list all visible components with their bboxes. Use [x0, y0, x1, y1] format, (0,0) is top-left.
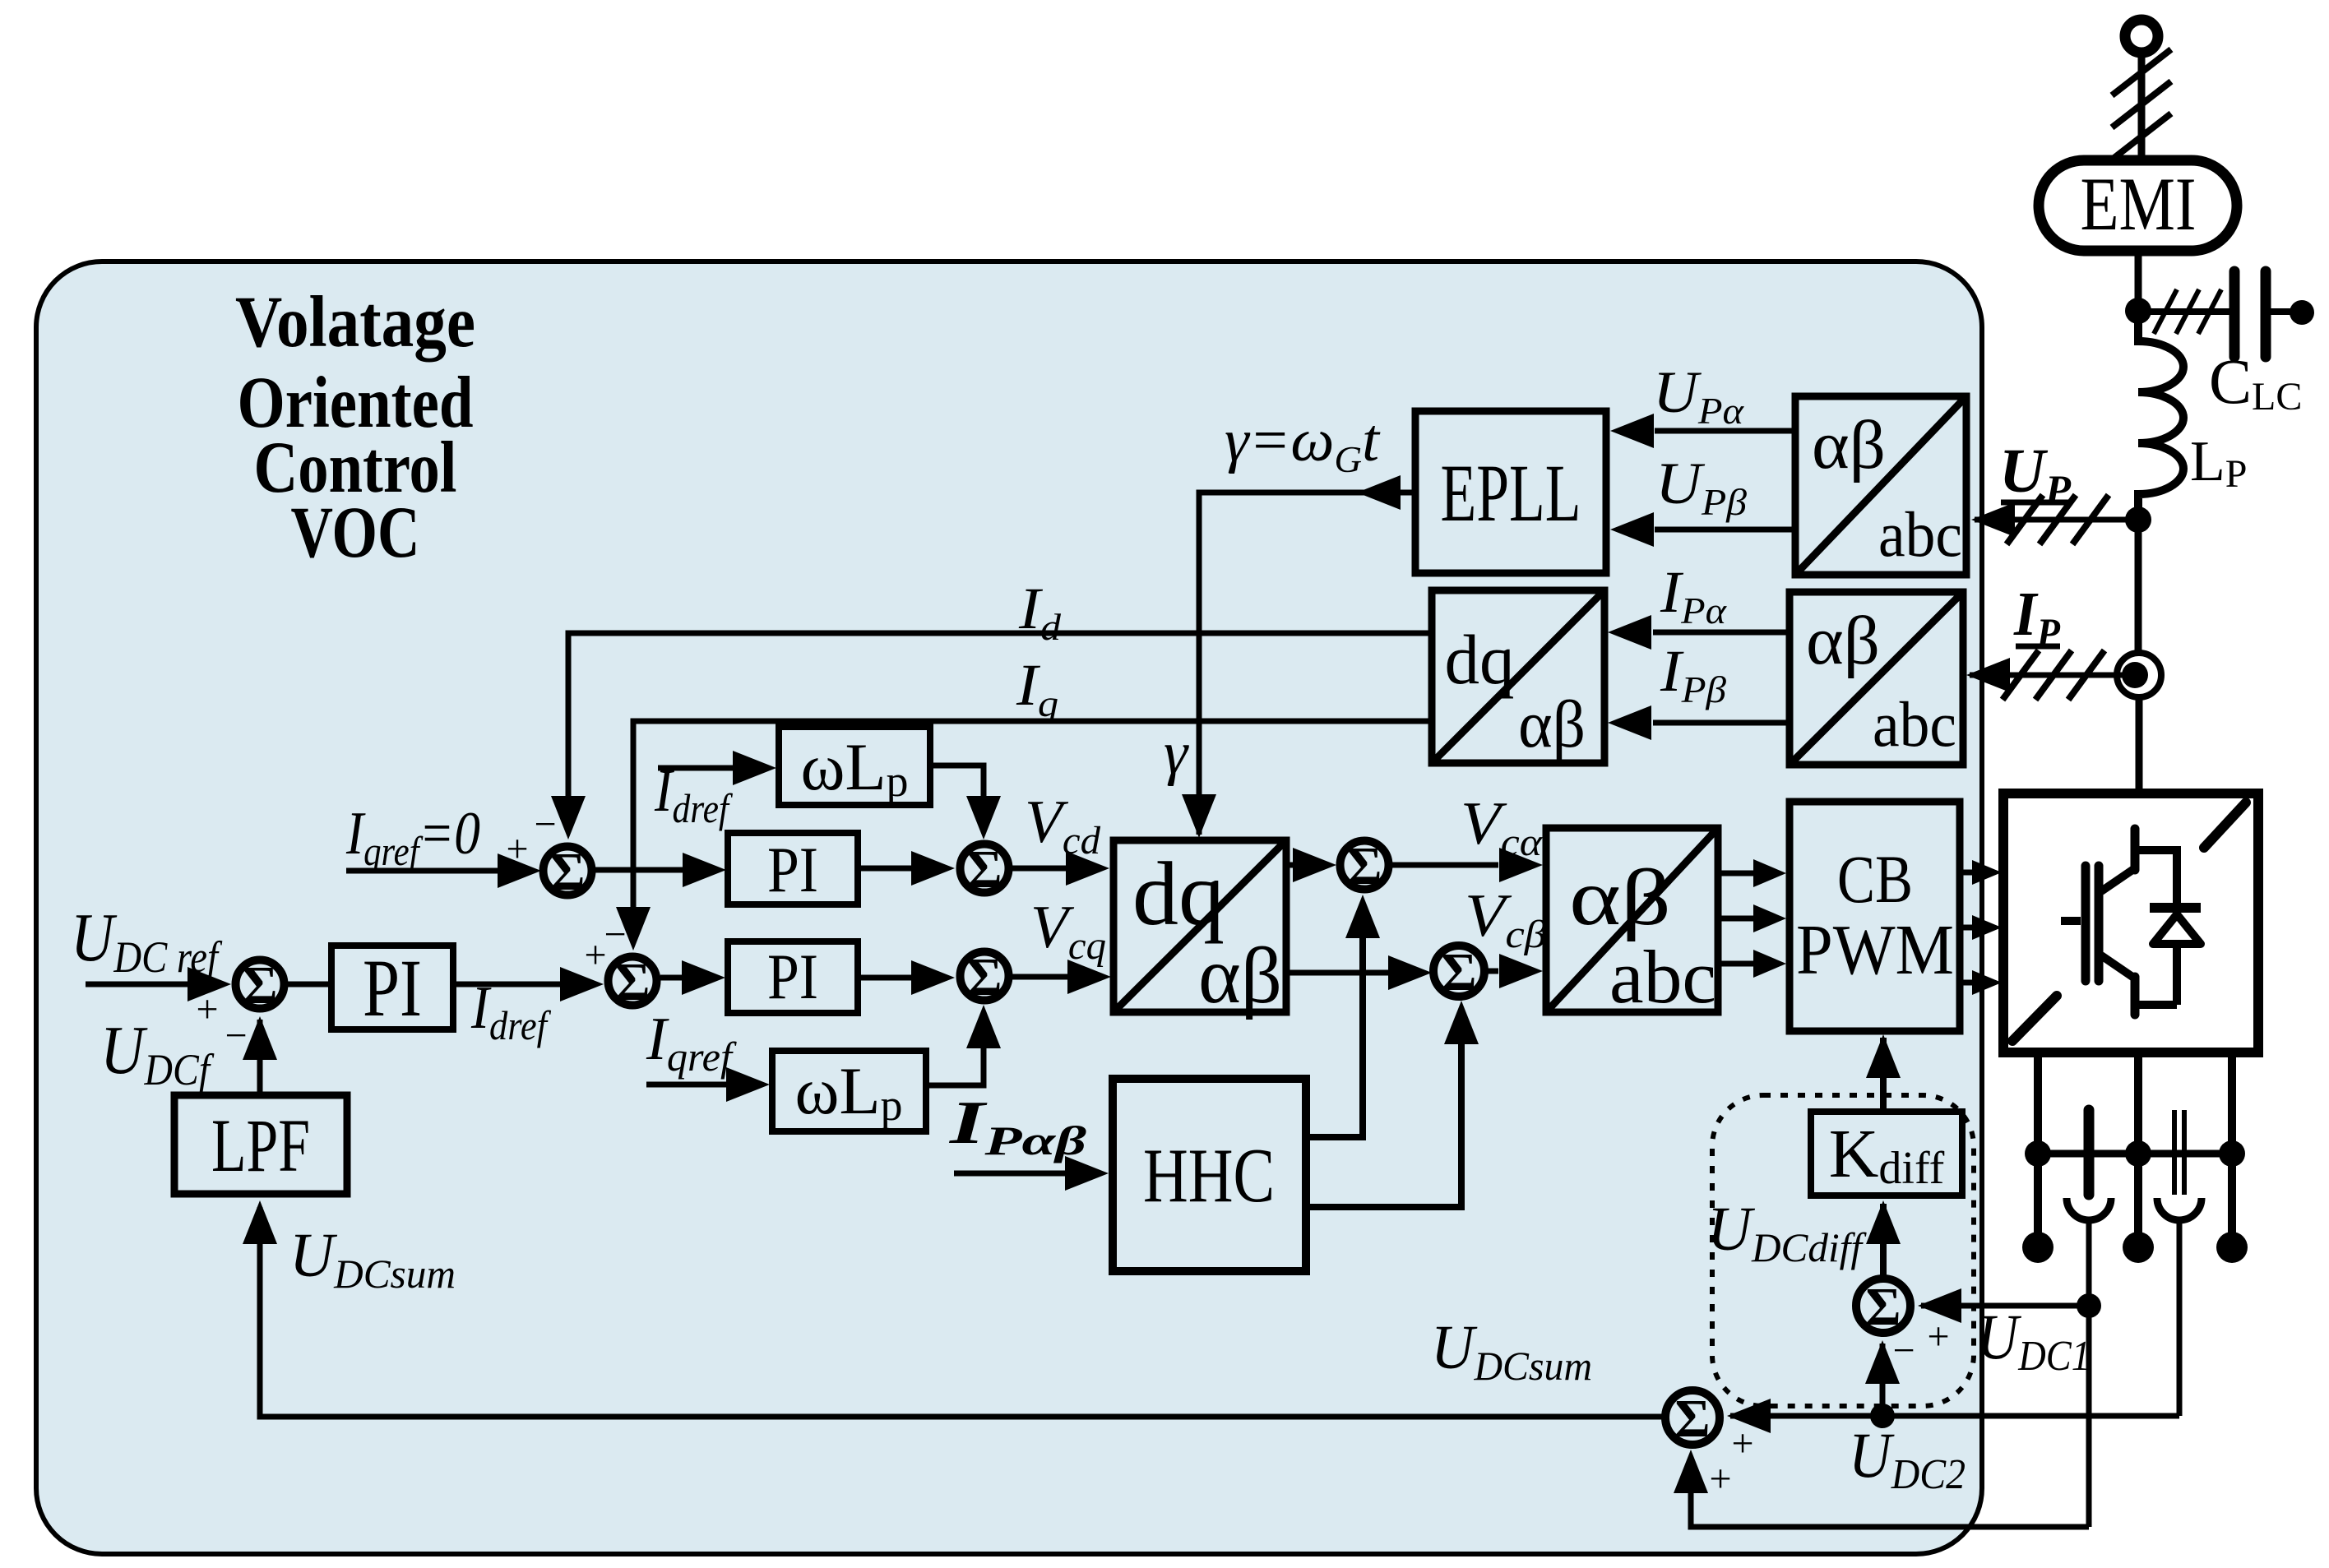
label UDCsum left — [289, 1221, 456, 1297]
svg-text:CLC: CLC — [2209, 345, 2302, 419]
wire SD to dq block with Vcq — [1012, 960, 1111, 994]
minus sign at SA — [534, 803, 556, 846]
minus sign at Sdiff — [1892, 1329, 1915, 1372]
wire Idref stub into omegaLp1 — [658, 751, 776, 785]
svg-text:Volatage: Volatage — [235, 282, 475, 363]
block alpha-beta to abc voltage transform U1 — [1795, 396, 1966, 575]
terminal circle at top — [2125, 20, 2158, 53]
svg-text:Σ: Σ — [549, 842, 585, 902]
block EPLL — [1415, 411, 1606, 573]
block LPF — [174, 1095, 347, 1194]
wire IPb with arrow — [1608, 705, 1790, 740]
plus sign at Sdiff — [1927, 1315, 1949, 1358]
block HHC — [1113, 1079, 1306, 1271]
label UPa — [1653, 359, 1744, 432]
label UDC2 — [1849, 1419, 1966, 1498]
svg-text:CB: CB — [1837, 841, 1913, 917]
capacitor C1 plate and curved plate — [2067, 1110, 2111, 1220]
label UP underlined — [1999, 437, 2072, 512]
wire IP measurement tap — [1966, 658, 2135, 692]
svg-text:abc: abc — [1873, 688, 1956, 760]
svg-text:−: − — [225, 1014, 247, 1057]
label IPb — [1660, 638, 1726, 710]
summing junction SD — [961, 947, 1009, 1007]
label Vcd — [1025, 789, 1101, 863]
wire converter leg mid — [2134, 1052, 2142, 1247]
control region background box VOC — [36, 261, 1982, 1554]
wire LPF to S1 — [243, 1016, 277, 1095]
label Iqref equals 0 — [345, 800, 480, 874]
svg-text:PWM: PWM — [1796, 909, 1954, 989]
svg-text:EPLL: EPLL — [1441, 447, 1581, 539]
wire PI B to SD — [858, 960, 955, 995]
svg-text:HHC: HHC — [1143, 1133, 1275, 1219]
wire S1 to PI 1 — [287, 982, 331, 988]
minus sign at S1 — [225, 1014, 247, 1057]
dotted box around Kdiff balancing — [1712, 1095, 1974, 1406]
wire IP sensor to converter — [2136, 697, 2143, 793]
block alpha-beta to abc output transform U5 — [1546, 828, 1718, 1019]
node dot rail left — [2025, 1140, 2051, 1167]
wire converter leg right — [2228, 1052, 2236, 1247]
svg-text:Σ: Σ — [1674, 1389, 1710, 1449]
label Idref upper — [654, 757, 733, 831]
capacitor CLC plates — [2234, 271, 2293, 357]
diode D1 antiparallel — [2137, 850, 2201, 1005]
wire omegaLp1 to SC — [930, 765, 1001, 840]
label Vcb — [1465, 882, 1546, 956]
svg-text:LPF: LPF — [211, 1103, 310, 1187]
label UDCf — [100, 1012, 215, 1094]
wire CB PWM gate c to converter — [1960, 970, 2002, 995]
converter box — [2003, 793, 2258, 1052]
wire SC to dq block with Vcd — [1012, 851, 1109, 886]
label UDCdiff — [1707, 1195, 1867, 1270]
wire CB PWM gate a to converter — [1960, 860, 2002, 885]
wire abc phase a to CB PWM — [1718, 859, 1786, 887]
svg-text:+: + — [506, 827, 528, 871]
wire UDC1 bottom feed into Ssum — [1674, 1450, 2089, 1527]
svg-text:dq: dq — [1132, 844, 1225, 944]
block alpha-beta to abc current transform U3 — [1790, 592, 1963, 765]
plus sign at SA — [506, 827, 528, 871]
label Iq — [1016, 652, 1058, 724]
block dq to alpha-beta current feedback transform U2 — [1432, 590, 1604, 763]
label CLC — [2209, 345, 2302, 419]
svg-text:PI: PI — [363, 942, 422, 1034]
wire PI1 to SB with Idref label — [453, 967, 604, 1001]
hatch marks on UP tap — [2007, 495, 2109, 544]
wire C1 lead down UDC1 sense — [2086, 1220, 2092, 1527]
svg-text:Σ: Σ — [242, 955, 277, 1015]
block PI 1 — [331, 942, 453, 1034]
svg-text:abc: abc — [1609, 935, 1716, 1019]
node dot UDC2 — [1870, 1404, 1895, 1428]
label Iqref lower — [646, 1006, 737, 1080]
svg-text:dq: dq — [1445, 620, 1515, 699]
svg-text:−: − — [604, 913, 626, 956]
wire Iqref stub into omegaLp2 — [646, 1067, 770, 1102]
wire gamma from EPLL output to dq block — [1182, 475, 1415, 838]
svg-text:αβ: αβ — [1812, 407, 1886, 483]
label IPa — [1660, 559, 1727, 631]
wire UP measurement tap — [1971, 502, 2138, 537]
node dot UDC1 — [2077, 1293, 2101, 1318]
label UDCsum middle — [1431, 1313, 1592, 1389]
plus sign below Ssum — [1709, 1457, 1731, 1501]
wire Sdiff to Kdiff — [1866, 1200, 1901, 1275]
label IP underlined — [2013, 580, 2060, 655]
wire Kdiff to CB PWM — [1866, 1034, 1901, 1112]
block CB PWM — [1790, 802, 1960, 1031]
summing junction Sdiff — [1856, 1277, 1910, 1337]
wire UDC1 into Sdiff — [1918, 1288, 2089, 1323]
label IPab — [949, 1089, 1087, 1163]
wire UDCref into S1 — [86, 967, 231, 1001]
terminal dot right of CLC — [2290, 300, 2314, 325]
node dot rail right — [2219, 1140, 2245, 1167]
wire UDC2 up into Sdiff — [1865, 1340, 1900, 1411]
wire abc phase c to CB PWM — [1718, 950, 1786, 978]
svg-text:PI: PI — [767, 834, 818, 905]
svg-text:Σ: Σ — [966, 840, 1002, 900]
svg-text:abc: abc — [1878, 498, 1962, 570]
plus sign at SB — [584, 933, 606, 977]
wire SF to ab-abc with Vcb — [1484, 954, 1543, 988]
wire dq q output to SF — [1286, 955, 1432, 990]
svg-text:VOC: VOC — [291, 493, 420, 573]
wire SA to PI A — [595, 853, 726, 887]
summing junction Ssum — [1665, 1389, 1720, 1449]
wire UPb with arrow into EPLL — [1610, 512, 1795, 547]
summing junction SC — [961, 840, 1009, 900]
summing junction SF — [1433, 942, 1484, 1002]
wire omegaLp2 to SD — [926, 1005, 1001, 1085]
svg-text:UDC1: UDC1 — [1977, 1301, 2091, 1380]
summing junction SB — [609, 952, 657, 1012]
label Vca — [1461, 790, 1543, 864]
block Kdiff — [1811, 1112, 1962, 1196]
wire CB PWM gate b to converter — [1960, 915, 2002, 940]
plus sign right of Ssum — [1731, 1422, 1753, 1465]
wire IPab stub into HHC — [954, 1156, 1109, 1191]
wire HHC lower output to SF — [1306, 1001, 1479, 1207]
wire EMI to junction — [2135, 251, 2142, 311]
svg-text:Σ: Σ — [966, 947, 1002, 1007]
svg-text:EMI: EMI — [2081, 162, 2197, 246]
block EMI filter — [2039, 160, 2237, 251]
wire abc phase b to CB PWM — [1718, 904, 1786, 932]
label gamma equals omega G t — [1225, 407, 1381, 480]
label UPb — [1655, 451, 1747, 523]
node dot rail mid — [2125, 1140, 2151, 1167]
svg-text:−: − — [1892, 1329, 1915, 1372]
wire Id feedback — [551, 633, 1432, 840]
plus sign at S1 — [196, 988, 218, 1031]
wire IPa with arrow — [1608, 615, 1790, 650]
svg-text:Σ: Σ — [614, 952, 650, 1012]
svg-text:Σ: Σ — [1441, 942, 1476, 1002]
block PI B — [728, 941, 858, 1013]
svg-text:−: − — [534, 803, 556, 846]
wire junction to CLC capacitor — [2138, 308, 2229, 315]
svg-text:LP: LP — [2190, 430, 2247, 496]
label UDCref — [71, 900, 223, 982]
label gamma at dq input — [1164, 719, 1189, 787]
svg-text:γ: γ — [1164, 719, 1189, 787]
converter diagonal bottom left — [2012, 996, 2057, 1041]
svg-text:αβ: αβ — [1569, 853, 1671, 942]
dc rail — [2038, 1150, 2232, 1158]
wire UDCsum long feedback to LPF — [243, 1200, 1662, 1417]
svg-text:+: + — [1927, 1315, 1949, 1358]
wire Iqref into sum A — [346, 853, 541, 888]
label UDC1 — [1977, 1301, 2091, 1380]
title text Voltage Oriented Control VOC — [235, 282, 475, 573]
svg-text:PI: PI — [767, 941, 818, 1012]
transistor IGBT Q1 — [2061, 829, 2135, 1015]
minus sign at SB — [604, 913, 626, 956]
hatch marks on CLC lead — [2154, 289, 2221, 334]
wire UDC2 sense horizontal — [1882, 1413, 2179, 1419]
inductor LP coil — [2138, 313, 2183, 520]
svg-text:αβ: αβ — [1198, 932, 1282, 1020]
block PI A — [728, 833, 858, 905]
node junction UP tap — [2125, 506, 2151, 533]
wire converter leg left — [2034, 1052, 2042, 1247]
wire UP junction down to IP sensor — [2135, 520, 2142, 653]
wire HHC upper output to SE — [1306, 895, 1380, 1137]
svg-text:Σ: Σ — [1346, 836, 1382, 896]
summing junction SE — [1340, 836, 1389, 896]
svg-text:+: + — [1731, 1422, 1753, 1465]
wire PI A to SC — [858, 851, 955, 886]
block omega Lp 1 — [779, 727, 930, 806]
block omega Lp 2 — [772, 1051, 926, 1131]
hatch marks on supply wire — [2112, 49, 2171, 160]
wire from terminal to EMI — [2138, 52, 2146, 162]
svg-text:+: + — [196, 988, 218, 1031]
terminal dot leg mid — [2123, 1232, 2154, 1263]
wire UPa with arrow into EPLL — [1610, 414, 1795, 448]
current sensor circle IP — [2117, 653, 2161, 697]
capacitor C2 plates and curved plate — [2157, 1110, 2202, 1220]
block dq to alpha-beta main transform U4 — [1114, 840, 1286, 1020]
terminal dot leg right — [2216, 1232, 2248, 1263]
converter diagonal top right — [2204, 803, 2246, 848]
wire C2 lead down — [2177, 1220, 2183, 1416]
label LP — [2190, 430, 2247, 496]
label Vcq — [1030, 894, 1106, 968]
node junction above inductor — [2125, 298, 2151, 324]
label Id — [1018, 576, 1062, 648]
wire dq d output to SE — [1286, 848, 1336, 882]
label Idref lower — [470, 974, 551, 1048]
summing junction SA — [544, 842, 592, 902]
svg-text:αβ: αβ — [1806, 603, 1880, 679]
wire Iq feedback — [616, 721, 1432, 951]
svg-text:αβ: αβ — [1518, 687, 1586, 761]
svg-text:+: + — [1709, 1457, 1731, 1501]
hatch marks on IP tap — [2003, 650, 2104, 700]
wire SE to ab-abc with Vca — [1391, 848, 1543, 882]
wire UDC2 into Ssum — [1727, 1399, 1882, 1433]
terminal dot leg left — [2022, 1232, 2054, 1263]
wire SB to PI B — [660, 960, 725, 995]
summing junction S1 — [236, 955, 285, 1015]
